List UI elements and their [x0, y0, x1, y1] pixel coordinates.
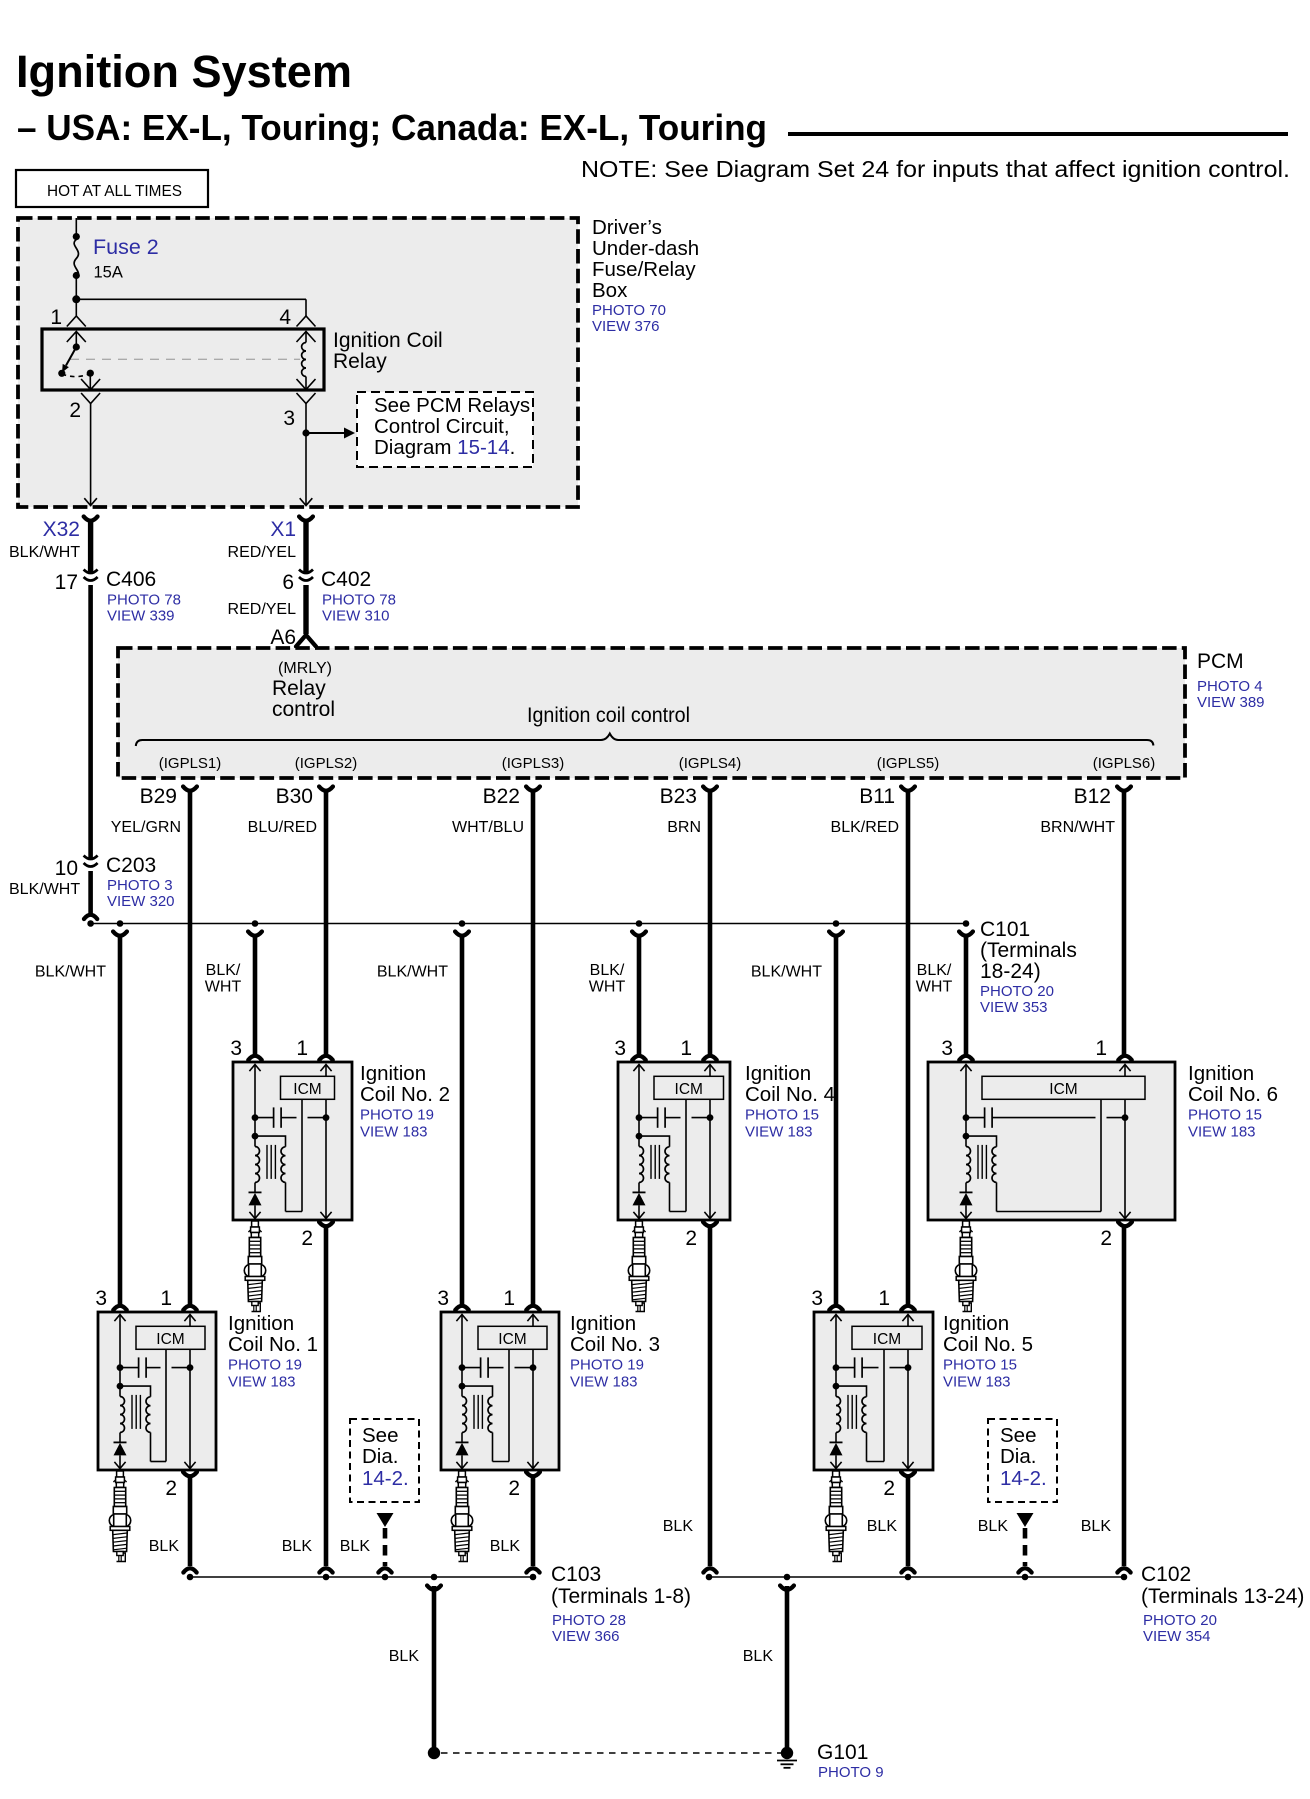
coil 1 internal wiring — [120, 1315, 196, 1469]
PCM terminal B30 — [276, 785, 333, 808]
svg-text:NOTE: See Diagram Set 24 for i: NOTE: See Diagram Set 24 for inputs that… — [581, 156, 1290, 182]
coil 5 transformer — [833, 1383, 867, 1462]
svg-text:VIEW 376: VIEW 376 — [592, 318, 660, 335]
label: Ignition Coil No. 6 — [1188, 1062, 1278, 1141]
svg-text:Ignition System: Ignition System — [16, 46, 352, 97]
svg-text:(IGPLS4): (IGPLS4) — [679, 755, 742, 772]
label: Driver's Under-dash Fuse/Relay Box — [592, 216, 699, 335]
svg-text:PHOTO 20: PHOTO 20 — [980, 983, 1054, 1000]
svg-text:PHOTO 9: PHOTO 9 — [818, 1764, 884, 1781]
relay pin 4 terminal — [279, 306, 315, 342]
svg-text:VIEW 353: VIEW 353 — [980, 999, 1048, 1016]
PCM terminal B12 — [1074, 785, 1131, 808]
svg-text:Ignition coil control: Ignition coil control — [527, 704, 690, 727]
svg-text:A6: A6 — [270, 626, 296, 649]
svg-text:Relay: Relay — [272, 677, 326, 700]
title rule — [788, 132, 1288, 136]
svg-text:PHOTO 15: PHOTO 15 — [745, 1107, 819, 1124]
svg-text:WHT: WHT — [916, 979, 953, 996]
coil 1 pin 1 entry — [160, 1287, 196, 1321]
svg-text:B22: B22 — [483, 785, 520, 808]
coil 5 capacitor — [833, 1357, 912, 1377]
wire: coil 4 pin 2 BLK to C102 bus — [663, 1227, 717, 1573]
svg-text:VIEW 183: VIEW 183 — [1188, 1124, 1256, 1141]
svg-text:VIEW 183: VIEW 183 — [570, 1374, 638, 1391]
svg-text:See: See — [362, 1424, 398, 1447]
ignition coil No. 2 box — [233, 1062, 352, 1220]
svg-text:(IGPLS1): (IGPLS1) — [159, 755, 222, 772]
terminal X1 — [270, 517, 313, 542]
wire: coil 2 pin 2 BLK to C103 bus — [282, 1227, 333, 1573]
wire: C103 bus to ground G101 BLK — [389, 1586, 441, 1749]
svg-text:BLK: BLK — [282, 1538, 313, 1555]
svg-text:Ignition: Ignition — [1188, 1062, 1254, 1085]
svg-text:PCM: PCM — [1197, 650, 1244, 673]
coil 5 ICM module — [852, 1326, 922, 1349]
svg-text:PHOTO 19: PHOTO 19 — [228, 1357, 302, 1374]
svg-text:BLK/RED: BLK/RED — [831, 819, 899, 836]
coil 2 pin 1 entry — [296, 1037, 332, 1071]
PCM terminal B29 — [140, 785, 197, 808]
svg-text:PHOTO 19: PHOTO 19 — [360, 1107, 434, 1124]
coil 4 driver diode — [633, 1183, 646, 1219]
svg-text:VIEW 389: VIEW 389 — [1197, 694, 1265, 711]
wire B29 YEL/GRN to coil 1 pin 1 — [188, 791, 193, 1305]
svg-text:BRN/WHT: BRN/WHT — [1040, 819, 1115, 836]
svg-text:BLK/: BLK/ — [206, 962, 241, 979]
label: Ignition Coil No. 4 — [745, 1062, 835, 1141]
svg-text:ICM: ICM — [498, 1331, 526, 1348]
coil 1 capacitor — [117, 1357, 194, 1377]
svg-text:VIEW 183: VIEW 183 — [360, 1124, 428, 1141]
coil 1 driver diode — [114, 1433, 127, 1469]
spark plug of coil 6 — [955, 1221, 976, 1312]
svg-text:Coil No. 1: Coil No. 1 — [228, 1333, 318, 1356]
svg-text:Ignition: Ignition — [228, 1312, 294, 1335]
svg-text:B11: B11 — [859, 785, 895, 808]
coil 5 pin 2 output — [883, 1472, 915, 1500]
wire: bus drop BLK/WHT at x=255 — [205, 932, 262, 1055]
svg-text:Driver’s: Driver’s — [592, 216, 662, 239]
svg-text:PHOTO 4: PHOTO 4 — [1197, 678, 1263, 695]
svg-text:(Terminals 13-24): (Terminals 13-24) — [1141, 1585, 1304, 1608]
svg-text:18-24): 18-24) — [980, 960, 1041, 983]
svg-text:14-2.: 14-2. — [1000, 1467, 1047, 1490]
svg-text:RED/YEL: RED/YEL — [228, 544, 297, 561]
svg-text:6: 6 — [282, 571, 294, 594]
svg-text:2: 2 — [69, 399, 81, 422]
label: Ignition coil control with brace — [136, 704, 1154, 746]
svg-text:ICM: ICM — [873, 1331, 901, 1348]
wire: C402 to PCM pin A6 RED/YEL — [228, 585, 306, 634]
svg-text:2: 2 — [883, 1477, 895, 1500]
svg-text:Under-dash: Under-dash — [592, 237, 699, 260]
coil 5 pin 1 entry — [878, 1287, 914, 1321]
coil 3 pin 3 entry — [437, 1287, 468, 1321]
svg-text:BLK: BLK — [490, 1538, 521, 1555]
coil 2 internal wiring — [255, 1065, 332, 1219]
svg-text:G101: G101 — [817, 1741, 868, 1764]
svg-text:1: 1 — [878, 1287, 890, 1310]
PCM terminal B11 — [859, 785, 915, 808]
svg-text:WHT: WHT — [205, 979, 242, 996]
coil 4 transformer — [636, 1133, 670, 1212]
svg-text:PHOTO 15: PHOTO 15 — [1188, 1107, 1262, 1124]
coil 4 pin 3 entry — [614, 1037, 645, 1071]
label: Ignition Coil Relay — [333, 329, 443, 373]
wire: bus drop BLK/WHT at x=639 — [589, 932, 646, 1055]
label: MRLY relay control — [272, 660, 335, 721]
svg-text:2: 2 — [301, 1227, 313, 1250]
svg-text:(IGPLS2): (IGPLS2) — [295, 755, 358, 772]
wire: bus drop BLK/WHT at x=120 — [35, 932, 127, 1305]
coil 3 driver diode — [456, 1433, 469, 1469]
svg-text:VIEW 320: VIEW 320 — [107, 893, 175, 910]
connector C103 (terminals 1-8) — [551, 1563, 691, 1645]
svg-text:14-2.: 14-2. — [362, 1467, 409, 1490]
coil 6 pin 1 entry — [1095, 1037, 1131, 1071]
relay internal dashed link — [70, 358, 300, 360]
svg-text:See PCM Relays: See PCM Relays — [374, 394, 530, 417]
BLK/WHT distribution bus — [87, 920, 969, 927]
coil 3 pin 1 entry — [503, 1287, 539, 1321]
svg-text:BLK: BLK — [389, 1648, 420, 1665]
svg-text:2: 2 — [685, 1227, 697, 1250]
svg-text:1: 1 — [160, 1287, 172, 1310]
wire: C102 bus to ground G101 BLK — [743, 1586, 794, 1749]
ground bus C103 — [187, 1574, 537, 1581]
svg-text:PHOTO 19: PHOTO 19 — [570, 1357, 644, 1374]
svg-text:BLK: BLK — [978, 1518, 1009, 1535]
svg-text:15A: 15A — [94, 264, 123, 282]
svg-text:RED/YEL: RED/YEL — [228, 601, 297, 618]
svg-text:BLK: BLK — [663, 1518, 694, 1535]
svg-text:ICM: ICM — [675, 1081, 703, 1098]
connector C102 (terminals 13-24) — [1141, 1563, 1304, 1645]
svg-text:PHOTO 78: PHOTO 78 — [322, 592, 396, 609]
coil 4 capacitor — [636, 1107, 714, 1127]
svg-text:1: 1 — [680, 1037, 692, 1060]
svg-text:Coil No. 2: Coil No. 2 — [360, 1083, 450, 1106]
svg-text:(IGPLS6): (IGPLS6) — [1093, 755, 1156, 772]
svg-text:1: 1 — [50, 306, 62, 329]
svg-text:C101: C101 — [980, 918, 1030, 941]
Driver's under-dash fuse/relay box outline — [18, 218, 578, 507]
svg-text:3: 3 — [283, 407, 295, 430]
svg-text:B12: B12 — [1074, 785, 1111, 808]
svg-text:B30: B30 — [276, 785, 313, 808]
svg-text:(Terminals 1-8): (Terminals 1-8) — [551, 1585, 691, 1608]
coil 4 internal wiring — [639, 1065, 716, 1219]
svg-text:C102: C102 — [1141, 1563, 1191, 1586]
coil 2 ICM module — [281, 1076, 335, 1099]
svg-text:YEL/GRN: YEL/GRN — [111, 819, 181, 836]
svg-text:BLK/: BLK/ — [590, 962, 625, 979]
svg-text:See: See — [1000, 1424, 1036, 1447]
spark plug of coil 2 — [244, 1221, 265, 1312]
connector C101 (terminals 18-24) — [980, 918, 1077, 1016]
svg-text:2: 2 — [508, 1477, 520, 1500]
svg-text:Coil No. 3: Coil No. 3 — [570, 1333, 660, 1356]
note box: See PCM Relays Control Circuit Diagram 15-14 — [357, 392, 533, 467]
shield wire from See Dia 14-2 (left) — [340, 1513, 394, 1573]
svg-text:Coil No. 6: Coil No. 6 — [1188, 1083, 1278, 1106]
svg-text:Fuse 2: Fuse 2 — [93, 235, 159, 259]
svg-text:VIEW 366: VIEW 366 — [552, 1628, 620, 1645]
svg-text:BLK: BLK — [149, 1538, 180, 1555]
coil 3 internal wiring — [462, 1315, 539, 1469]
svg-text:4: 4 — [279, 306, 291, 329]
PCM terminal B23 — [660, 785, 717, 808]
svg-text:BLK/: BLK/ — [917, 962, 952, 979]
terminal X32 — [43, 517, 98, 542]
wire B30 BLU/RED to coil 2 pin 1 — [324, 791, 329, 1055]
svg-text:PHOTO 3: PHOTO 3 — [107, 877, 173, 894]
wire B12 BRN/WHT to coil 6 pin 1 — [1122, 791, 1127, 1055]
wire: relay pin 2 to X32 — [84, 404, 97, 506]
coil 5 pin 3 entry — [811, 1287, 842, 1321]
wire: coil 6 pin 2 BLK to C102 bus — [1081, 1227, 1131, 1573]
svg-text:C103: C103 — [551, 1563, 601, 1586]
label: Ignition Coil No. 2 — [360, 1062, 450, 1141]
svg-text:Coil No. 4: Coil No. 4 — [745, 1083, 835, 1106]
svg-text:17: 17 — [55, 571, 78, 594]
coil 3 pin 2 output — [508, 1472, 540, 1500]
svg-text:BLK/WHT: BLK/WHT — [377, 964, 448, 981]
wire B11 BLK/RED to coil 5 pin 1 — [906, 791, 911, 1305]
svg-text:3: 3 — [811, 1287, 823, 1310]
svg-text:BRN: BRN — [667, 819, 701, 836]
svg-text:VIEW 183: VIEW 183 — [943, 1374, 1011, 1391]
wire: relay pin 3 to X1 with junction — [300, 404, 355, 506]
relay switch contacts — [58, 332, 94, 390]
label: HOT AT ALL TIMES — [16, 170, 208, 207]
wire: fuse to relay pin 1 and pin 4 — [72, 278, 306, 317]
ignition coil No. 4 box — [618, 1062, 730, 1220]
coil 6 pin 3 entry — [941, 1037, 972, 1071]
wire B23 BRN to coil 4 pin 1 — [708, 791, 713, 1055]
coil 6 ICM module — [982, 1076, 1145, 1099]
relay pin 3 terminal — [283, 379, 315, 430]
label: Ignition Coil No. 1 — [228, 1312, 318, 1391]
svg-text:Ignition: Ignition — [360, 1062, 426, 1085]
coil 3 transformer — [459, 1383, 493, 1462]
coil 4 ICM module — [654, 1076, 724, 1099]
svg-text:(Terminals: (Terminals — [980, 939, 1077, 962]
svg-text:C402: C402 — [321, 568, 371, 591]
label: PCM — [1197, 650, 1265, 711]
svg-text:3: 3 — [437, 1287, 449, 1310]
note box: See Dia. 14-2 (right) — [988, 1419, 1057, 1502]
svg-text:BLK: BLK — [1081, 1518, 1112, 1535]
svg-text:2: 2 — [165, 1477, 177, 1500]
svg-text:HOT AT ALL TIMES: HOT AT ALL TIMES — [47, 183, 182, 200]
svg-text:Coil No. 5: Coil No. 5 — [943, 1333, 1033, 1356]
svg-text:VIEW 354: VIEW 354 — [1143, 1628, 1211, 1645]
spark plug of coil 1 — [109, 1471, 130, 1562]
ground tie dashed link — [428, 1747, 782, 1759]
coil 2 driver diode — [249, 1183, 262, 1219]
ground bus C102 — [706, 1574, 1128, 1581]
coil 6 pin 2 output — [1100, 1222, 1132, 1250]
svg-text:BLK: BLK — [743, 1648, 774, 1665]
svg-text:B23: B23 — [660, 785, 697, 808]
svg-text:PHOTO 20: PHOTO 20 — [1143, 1612, 1217, 1629]
svg-text:BLK/WHT: BLK/WHT — [35, 964, 106, 981]
wire: coil 3 pin 2 BLK to C103 bus — [490, 1477, 540, 1573]
svg-text:VIEW 339: VIEW 339 — [107, 608, 175, 625]
relay pin 2 terminal — [69, 379, 100, 422]
svg-text:BLK/WHT: BLK/WHT — [9, 881, 80, 898]
svg-text:Ignition: Ignition — [943, 1312, 1009, 1335]
svg-text:2: 2 — [1100, 1227, 1112, 1250]
coil 1 pin 3 entry — [95, 1287, 126, 1321]
coil 1 transformer — [117, 1383, 151, 1462]
wire: C406 to C203 BLK/WHT — [9, 585, 91, 898]
spark plug of coil 3 — [451, 1471, 472, 1562]
coil 3 ICM module — [478, 1326, 547, 1349]
svg-text:– USA: EX-L, Touring; Canada:: – USA: EX-L, Touring; Canada: EX-L, Tour… — [17, 107, 767, 148]
ignition coil No. 1 box — [98, 1312, 216, 1470]
svg-text:Dia.: Dia. — [362, 1445, 398, 1468]
svg-text:VIEW 183: VIEW 183 — [228, 1374, 296, 1391]
coil 6 driver diode — [960, 1183, 973, 1219]
svg-text:Relay: Relay — [333, 350, 387, 373]
ignition coil No. 3 box — [441, 1312, 559, 1470]
svg-text:BLK/WHT: BLK/WHT — [751, 964, 822, 981]
svg-text:control: control — [272, 698, 335, 721]
svg-text:ICM: ICM — [293, 1081, 321, 1098]
svg-text:PHOTO 70: PHOTO 70 — [592, 302, 666, 319]
wire: X1 stub RED/YEL — [228, 521, 306, 572]
coil 1 pin 2 output — [165, 1472, 197, 1500]
svg-text:PHOTO 28: PHOTO 28 — [552, 1612, 626, 1629]
svg-text:3: 3 — [941, 1037, 953, 1060]
svg-text:C203: C203 — [106, 854, 156, 877]
PCM module box — [118, 648, 1185, 778]
coil 4 pin 1 entry — [680, 1037, 716, 1071]
svg-text:B29: B29 — [140, 785, 177, 808]
wire: bus drop BLK/WHT at x=966 — [916, 932, 973, 1055]
svg-text:10: 10 — [55, 857, 78, 880]
svg-text:3: 3 — [95, 1287, 107, 1310]
coil 6 transformer — [963, 1133, 997, 1212]
coil 2 pin 2 output — [301, 1222, 333, 1250]
svg-text:BLK/WHT: BLK/WHT — [9, 544, 80, 561]
svg-text:BLK: BLK — [867, 1518, 898, 1535]
svg-text:WHT: WHT — [589, 979, 626, 996]
connector C402 pin 6 — [282, 568, 396, 625]
fuse F2 (Fuse 2, 15A) — [73, 233, 159, 282]
svg-text:1: 1 — [1095, 1037, 1107, 1060]
relay coil winding — [302, 332, 306, 390]
label: Ignition Coil No. 5 — [943, 1312, 1033, 1391]
svg-text:X32: X32 — [43, 518, 80, 541]
note box: See Dia. 14-2 (left) — [350, 1419, 419, 1502]
spark plug of coil 5 — [825, 1471, 846, 1562]
relay pin 1 terminal — [50, 306, 85, 342]
svg-text:ICM: ICM — [1049, 1081, 1077, 1098]
coil 5 driver diode — [830, 1433, 843, 1469]
svg-text:Fuse/Relay: Fuse/Relay — [592, 258, 696, 281]
svg-text:Control Circuit,: Control Circuit, — [374, 415, 510, 438]
svg-text:3: 3 — [230, 1037, 242, 1060]
svg-text:(IGPLS5): (IGPLS5) — [877, 755, 940, 772]
wire: bus drop BLK/WHT at x=462 — [377, 932, 469, 1305]
coil 6 capacitor — [963, 1107, 1129, 1127]
svg-text:PHOTO 78: PHOTO 78 — [107, 592, 181, 609]
svg-text:C406: C406 — [106, 568, 156, 591]
connector C203 pin 10 — [55, 854, 175, 910]
wire: battery feed into fuse — [75, 218, 77, 234]
svg-text:ICM: ICM — [156, 1331, 184, 1348]
wire: coil 1 pin 2 BLK to C103 bus — [149, 1477, 197, 1573]
svg-text:Ignition Coil: Ignition Coil — [333, 329, 443, 352]
coil 6 internal wiring — [966, 1065, 1131, 1219]
svg-text:Ignition: Ignition — [570, 1312, 636, 1335]
svg-text:BLK: BLK — [340, 1538, 371, 1555]
connector C406 pin 17 — [55, 568, 181, 625]
svg-text:PHOTO 15: PHOTO 15 — [943, 1357, 1017, 1374]
PCM terminal A6 — [270, 626, 316, 649]
svg-text:VIEW 310: VIEW 310 — [322, 608, 390, 625]
shield wire from See Dia 14-2 (right) — [978, 1513, 1034, 1573]
svg-text:3: 3 — [614, 1037, 626, 1060]
svg-text:X1: X1 — [270, 518, 296, 541]
coil 4 pin 2 output — [685, 1222, 717, 1250]
coil 2 pin 3 entry — [230, 1037, 261, 1071]
svg-text:1: 1 — [503, 1287, 515, 1310]
svg-text:BLU/RED: BLU/RED — [248, 819, 317, 836]
coil 5 internal wiring — [836, 1315, 914, 1469]
label: Ignition Coil No. 3 — [570, 1312, 660, 1391]
coil 1 ICM module — [136, 1326, 205, 1349]
svg-text:VIEW 183: VIEW 183 — [745, 1124, 813, 1141]
ignition coil No. 5 box — [814, 1312, 933, 1470]
ground G101 — [777, 1741, 884, 1781]
relay K (Ignition Coil Relay) box — [42, 329, 324, 390]
svg-text:Box: Box — [592, 279, 628, 302]
wire: coil 5 pin 2 BLK to C102 bus — [867, 1477, 915, 1573]
wire B22 WHT/BLU to coil 3 pin 1 — [531, 791, 536, 1305]
svg-text:1: 1 — [296, 1037, 308, 1060]
coil 3 capacitor — [459, 1357, 537, 1377]
svg-text:WHT/BLU: WHT/BLU — [452, 819, 524, 836]
wire: bus drop BLK/WHT at x=836 — [751, 932, 843, 1305]
svg-text:Dia.: Dia. — [1000, 1445, 1036, 1468]
svg-text:(IGPLS3): (IGPLS3) — [502, 755, 565, 772]
svg-text:(MRLY): (MRLY) — [278, 660, 332, 677]
svg-text:Diagram 15-14.: Diagram 15-14. — [374, 436, 515, 459]
coil 2 transformer — [252, 1133, 286, 1212]
spark plug of coil 4 — [628, 1221, 649, 1312]
wire: C203 to ground bus — [84, 871, 97, 919]
ignition coil No. 6 box — [928, 1062, 1175, 1220]
wire: X32 stub BLK/WHT — [9, 521, 91, 572]
svg-text:Ignition: Ignition — [745, 1062, 811, 1085]
PCM terminal B22 — [483, 785, 540, 808]
coil 2 capacitor — [252, 1107, 330, 1127]
